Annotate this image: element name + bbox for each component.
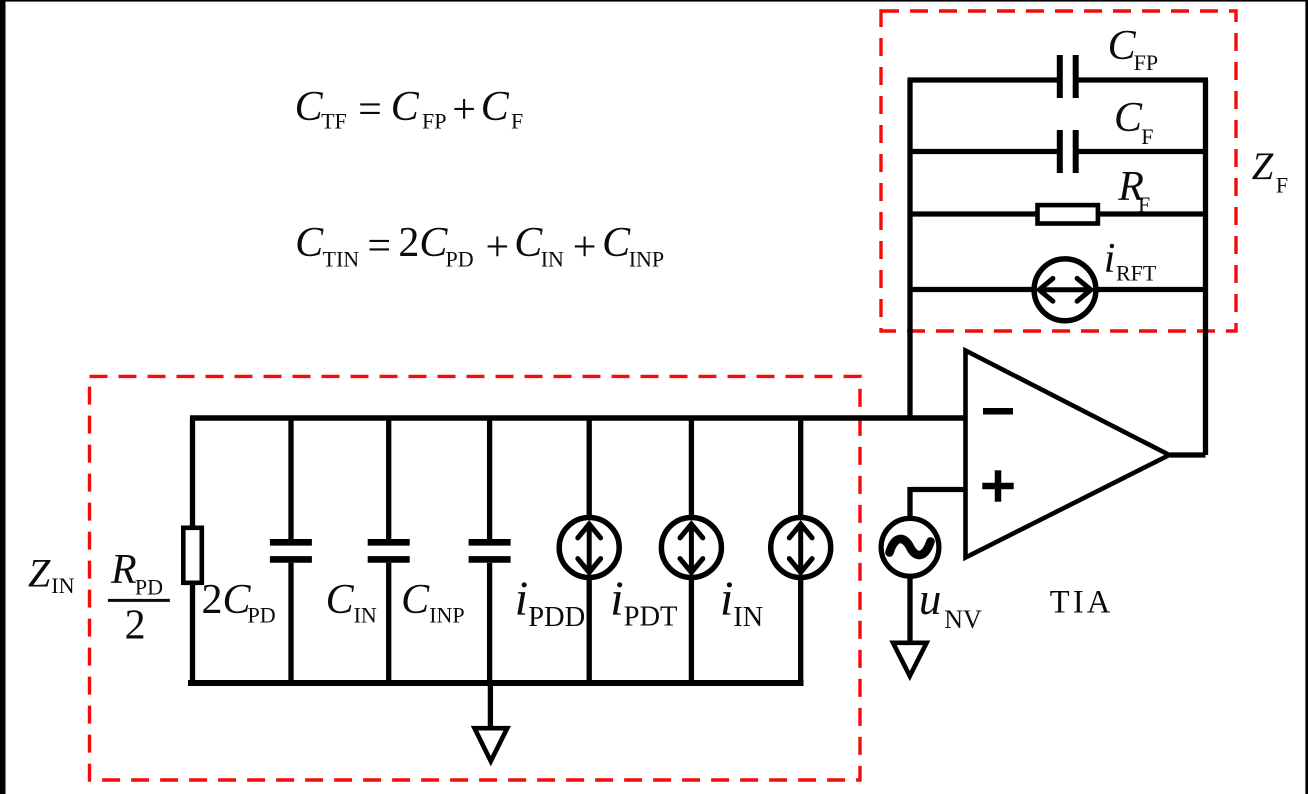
svg-text:TIN: TIN <box>323 246 360 271</box>
svg-text:2: 2 <box>125 603 146 649</box>
svg-text:i: i <box>720 571 734 626</box>
svg-text:IN: IN <box>354 602 377 627</box>
svg-text:FP: FP <box>422 109 446 134</box>
svg-text:C: C <box>295 84 324 130</box>
svg-text:INP: INP <box>629 246 664 271</box>
svg-text:i: i <box>1104 236 1116 282</box>
svg-text:PD: PD <box>248 602 276 627</box>
svg-text:C: C <box>401 577 430 623</box>
svg-text:TF: TF <box>321 109 347 134</box>
svg-text:2C: 2C <box>202 577 252 623</box>
svg-text:TIA: TIA <box>1050 585 1114 621</box>
svg-text:Z: Z <box>28 551 51 596</box>
svg-text:IN: IN <box>733 602 763 633</box>
svg-text:R: R <box>110 547 137 593</box>
svg-text:PDT: PDT <box>624 601 678 632</box>
svg-text:F: F <box>511 109 523 134</box>
svg-text:i: i <box>515 571 529 626</box>
svg-text:i: i <box>610 571 624 626</box>
svg-text:F: F <box>1141 124 1153 149</box>
svg-text:FP: FP <box>1134 50 1158 75</box>
svg-text:C: C <box>326 577 355 623</box>
svg-text:PD: PD <box>446 246 474 271</box>
svg-text:NV: NV <box>944 605 982 634</box>
svg-text:F: F <box>1276 173 1288 198</box>
svg-text:2C: 2C <box>398 220 448 266</box>
svg-text:PD: PD <box>135 574 163 599</box>
svg-text:+: + <box>573 225 597 271</box>
svg-text:RFT: RFT <box>1116 260 1157 285</box>
svg-text:+: + <box>452 87 476 133</box>
svg-text:C: C <box>602 220 631 266</box>
svg-text:u: u <box>919 574 942 624</box>
svg-text:C: C <box>391 84 420 130</box>
svg-text:C: C <box>481 84 510 130</box>
svg-text:C: C <box>295 220 324 266</box>
svg-text:F: F <box>1138 192 1150 217</box>
svg-text:+: + <box>486 225 510 271</box>
svg-text:PDD: PDD <box>528 602 585 633</box>
svg-text:INP: INP <box>429 602 464 627</box>
svg-text:C: C <box>1114 95 1143 141</box>
svg-text:C: C <box>514 220 543 266</box>
svg-text:IN: IN <box>541 246 564 271</box>
svg-text:C: C <box>1108 23 1137 69</box>
svg-text:=: = <box>367 223 391 269</box>
svg-text:Z: Z <box>1252 145 1275 188</box>
svg-text:=: = <box>358 87 382 133</box>
svg-text:IN: IN <box>51 573 74 598</box>
